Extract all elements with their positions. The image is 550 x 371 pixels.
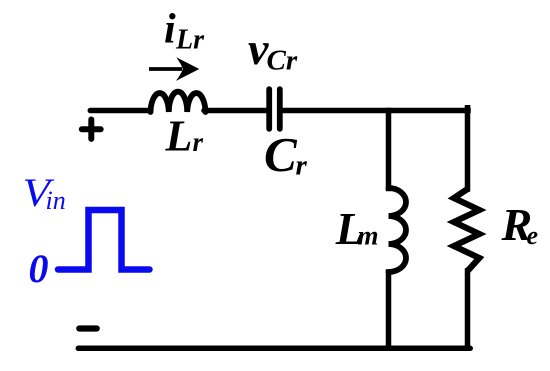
wire bottom rail [78, 346, 470, 352]
svg-text:i: i [164, 7, 176, 53]
svg-text:r: r [193, 127, 204, 157]
svg-text:e: e [527, 221, 539, 250]
svg-text:Cr: Cr [267, 45, 298, 77]
wire from Cr to top-right corner [283, 108, 469, 114]
svg-text:m: m [358, 221, 379, 251]
wire right vertical bottom (Re to bottom rail) [465, 271, 471, 348]
inductor Lm (three humps, vertical) [389, 188, 407, 272]
resistor Re zigzag [454, 189, 479, 271]
node junction at top of Lm branch [386, 111, 392, 189]
Vin pulse waveform (blue) [58, 210, 150, 270]
svg-text:Lr: Lr [175, 25, 205, 56]
svg-text:L: L [165, 112, 193, 161]
wire right vertical top (to Re) [465, 108, 471, 189]
minus terminal symbol [79, 325, 96, 331]
wire from Lm bottom to bottom rail [386, 272, 392, 348]
plus terminal symbol [82, 120, 101, 139]
wire between Lr and Cr [204, 108, 267, 114]
svg-text:in: in [46, 186, 66, 215]
svg-text:r: r [296, 149, 308, 181]
svg-text:0: 0 [29, 246, 49, 291]
wire top-left segment from + terminal to Lr [90, 108, 150, 114]
capacitor Cr right plate [277, 89, 283, 129]
capacitor Cr left plate [266, 89, 272, 129]
svg-text:C: C [264, 127, 298, 182]
inductor Lr (three humps) [151, 92, 206, 112]
arrow for current iLr [149, 67, 182, 71]
